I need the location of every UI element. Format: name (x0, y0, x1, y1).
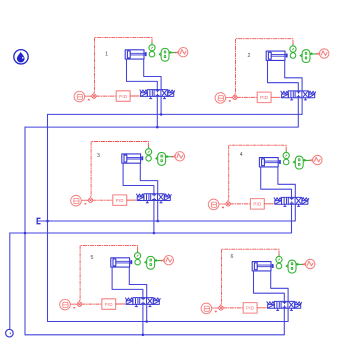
pressure bus row3 (48, 321, 289, 323)
valve6 port to tank bus (283, 308, 285, 334)
bus junction dots (24, 113, 163, 336)
valve2 port to pressure bus (301, 98, 303, 115)
trunk P (47, 114, 49, 321)
svg-text:2: 2 (247, 53, 250, 59)
fluid properties icon (14, 50, 28, 64)
svg-text:4: 4 (240, 152, 243, 158)
valve1 port to pressure bus (160, 97, 162, 115)
E connector bracket (37, 218, 40, 223)
valve1 port to tank bus (156, 97, 158, 128)
trunk T (24, 127, 26, 335)
valve4 port to tank bus (291, 204, 293, 233)
valve2 port to tank bus (297, 98, 299, 127)
valve3 port to pressure bus (157, 201, 159, 221)
svg-text:1: 1 (105, 52, 108, 58)
tank bus row2 (10, 232, 292, 234)
svg-text:6: 6 (231, 254, 234, 260)
trunk to tank node (9, 233, 11, 329)
svg-text:5: 5 (91, 255, 94, 261)
svg-text:3: 3 (97, 153, 100, 159)
pressure bus row2 (E line) (38, 220, 296, 222)
valve5 port to pressure bus (146, 305, 148, 322)
pressure bus row1 (48, 113, 303, 115)
tank bus row1 (25, 126, 298, 128)
valve6 port to pressure bus (287, 308, 289, 321)
tank node circle (6, 329, 14, 337)
tank bus row3 (25, 334, 284, 336)
valve5 port to tank bus (142, 305, 144, 335)
valve4 port to pressure bus (294, 204, 296, 221)
valve3 port to tank bus (153, 201, 155, 233)
